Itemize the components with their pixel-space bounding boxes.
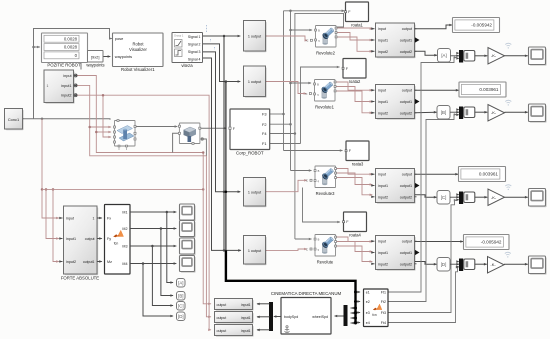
svg-text:-K-: -K- [490, 262, 496, 267]
wire tag to mux row3 [450, 196, 459, 198]
svg-text:1 output: 1 output [248, 35, 261, 39]
scope row4 [530, 257, 547, 275]
goto tag A small [177, 279, 186, 288]
goto tag C small [177, 302, 186, 311]
svg-text:e1: e1 [366, 290, 370, 294]
wire branch to goto C [152, 246, 173, 307]
svg-text:0.0028: 0.0028 [64, 36, 78, 41]
svg-text:input: input [63, 74, 72, 78]
unconnected output1 arrow row4 [415, 250, 420, 255]
svg-text:Signal 4: Signal 4 [188, 58, 201, 62]
svg-text:output2: output2 [400, 262, 412, 266]
wire waypoints to visualizer [103, 55, 111, 58]
svg-text:M4: M4 [122, 262, 127, 266]
svg-text:Ft2: Ft2 [381, 300, 386, 304]
wire Ft1 feedback [388, 56, 457, 292]
svg-text:output: output [217, 329, 227, 333]
svg-text:Ft3: Ft3 [381, 311, 386, 315]
scope M1 [181, 205, 196, 221]
wire Signal2 route [203, 44, 241, 83]
svg-text:input2: input2 [378, 50, 388, 54]
wire M3 to scope [130, 245, 177, 248]
svg-text:wheelSpd: wheelSpd [312, 315, 328, 319]
wire body bottom port route [201, 139, 206, 156]
wire branch to goto A [167, 212, 174, 284]
wire branch to goto D [143, 264, 174, 318]
svg-text:e3: e3 [366, 311, 370, 315]
svg-text:CINEMATICA DIRECTA MECANUM: CINEMATICA DIRECTA MECANUM [271, 291, 342, 296]
gain row3 [488, 189, 505, 206]
svg-text:1 output: 1 output [248, 249, 261, 253]
converter block row1 [464, 51, 475, 62]
svg-text:output1: output1 [400, 184, 412, 188]
svg-text:output: output [217, 303, 227, 307]
svg-text:output: output [402, 240, 412, 244]
mux row3 [460, 192, 463, 204]
wire Revolute2 outputs to subsystem [336, 27, 373, 30]
svg-text:waypoints: waypoints [115, 54, 132, 59]
svg-text:Corp_ROBOT: Corp_ROBOT [236, 151, 264, 156]
joint J1 lower actuation markers [118, 145, 120, 147]
joint body block [179, 123, 200, 144]
svg-text:0.003961: 0.003961 [479, 87, 499, 92]
svg-text:pose: pose [115, 36, 123, 41]
scope M3 [181, 239, 196, 255]
anchor icon [285, 326, 290, 333]
wire output2 to tagA [415, 51, 438, 56]
svg-text:1 output: 1 output [248, 80, 261, 84]
svg-text:input1: input1 [378, 39, 388, 43]
wire gain to scope row4 [504, 263, 528, 266]
wire Ft2 feedback [388, 113, 457, 301]
mux row4 [460, 259, 463, 271]
wire long pink horizontal [42, 188, 203, 190]
svg-text:Robot Visualizer1: Robot Visualizer1 [121, 67, 155, 72]
svg-text:roata3: roata3 [352, 161, 364, 166]
block Corp_ROBOT [230, 109, 270, 150]
block waypoints [88, 51, 104, 63]
wire J1 to body joint [135, 125, 178, 128]
display row1 [453, 18, 500, 33]
wire q actuation row4 [266, 248, 307, 251]
force block roata3 [346, 141, 369, 161]
svg-text:[C]: [C] [178, 303, 184, 308]
matlab function block fcn2 [364, 289, 389, 327]
subsystem 1 output #1 [245, 22, 267, 53]
wire output to display4 [415, 240, 464, 243]
svg-text:output2: output2 [400, 50, 412, 54]
svg-text:-0.005942: -0.005942 [471, 23, 492, 28]
svg-text:input1: input1 [241, 303, 251, 307]
svg-text:B: B [318, 28, 320, 32]
wire tag to mux row2 [450, 111, 459, 113]
svg-text:1: 1 [47, 84, 49, 88]
block viteza signal builder [172, 33, 203, 63]
svg-text:Group 1: Group 1 [174, 34, 184, 38]
svg-text:e4: e4 [366, 321, 370, 325]
svg-text:Visualizer: Visualizer [129, 47, 147, 52]
svg-text:output2: output2 [400, 195, 412, 199]
wire Corp F3 route [270, 113, 284, 115]
wire mux5 to wheelSpd [334, 315, 344, 318]
svg-text:roata1: roata1 [351, 22, 363, 27]
svg-text:input1: input1 [61, 84, 71, 88]
svg-text:0.0028: 0.0028 [64, 45, 78, 50]
gain row4 [488, 257, 505, 274]
goto tag D small [177, 312, 186, 321]
wire Revolute1 outputs to subsystem [335, 82, 373, 92]
scope row3 [530, 190, 547, 208]
wire gain to scope row1 [505, 55, 529, 58]
svg-text:output: output [402, 89, 412, 93]
wire Revolute4 outputs to subsystem [336, 237, 373, 243]
wire TL out2 route [77, 85, 212, 318]
joint Revolute1 [315, 80, 336, 102]
svg-text:0.003961: 0.003961 [479, 172, 499, 177]
svg-text:Revolute3: Revolute3 [316, 191, 336, 196]
unconnected output1 arrow row1 [415, 37, 420, 42]
wire bold distribution line lower [226, 250, 356, 322]
wire M2 to scope [130, 227, 177, 230]
svg-text:Fy: Fy [107, 237, 111, 241]
wire pose feed vertical [34, 29, 113, 119]
wire TL out1 route [77, 76, 212, 306]
svg-text:[B]: [B] [441, 110, 446, 115]
svg-text:input2: input2 [378, 111, 388, 115]
svg-text:[A]: [A] [441, 53, 446, 58]
svg-text:[C]: [C] [441, 195, 447, 200]
svg-text:roata4: roata4 [349, 232, 361, 237]
svg-text:input: input [378, 89, 386, 93]
goto tag A row1 [438, 49, 451, 63]
svg-text:-K-: -K- [491, 53, 497, 58]
svg-text:POZITIE ROBOT: POZITIE ROBOT [47, 63, 81, 68]
subsystem measure row4 [377, 237, 416, 271]
converter block row2 [464, 107, 475, 118]
wire tag to mux row1 [451, 55, 460, 57]
wire to gain row2 [475, 111, 488, 114]
wire output2 to tagD [415, 262, 438, 266]
wire bodySpd to demux [273, 315, 281, 318]
scope row1 [530, 48, 547, 65]
wire Conc1 to joint [23, 119, 111, 120]
svg-text:output: output [85, 237, 95, 241]
wire left feedback vertical B [46, 189, 59, 239]
svg-text:[D]: [D] [441, 262, 447, 267]
svg-text:output: output [402, 27, 412, 31]
wire q actuation row3 [266, 179, 307, 192]
wire Signal1 to 1output [203, 35, 241, 38]
joint Revolute [315, 235, 336, 257]
svg-text:[A]: [A] [178, 280, 183, 285]
subsystem output-input1 #1 [216, 300, 254, 311]
svg-text:Signal 3: Signal 3 [188, 50, 201, 54]
svg-text:-0.005942: -0.005942 [481, 240, 502, 245]
logging badge marks [206, 25, 208, 33]
wifi badge row2 [505, 100, 511, 105]
goto tag C row3 [437, 191, 450, 205]
mux5 wheel speeds [344, 306, 347, 326]
subsystem measure row3 [377, 170, 416, 204]
svg-text:F2: F2 [262, 122, 267, 127]
svg-text:input1: input1 [66, 237, 76, 241]
svg-text:Ft1: Ft1 [381, 290, 386, 294]
wire body loop under [173, 133, 180, 152]
svg-text:input1: input1 [378, 251, 388, 255]
wire Ft4 feedback [388, 266, 459, 323]
svg-text:input1: input1 [378, 100, 388, 104]
wire branch to goto B [161, 229, 174, 297]
wires demux to blocks [257, 303, 270, 305]
wire to Revolute4 B [295, 238, 312, 241]
subsystem 1 output #4 [245, 237, 267, 266]
joint Revolute2 [316, 26, 337, 48]
wire q actuation row2 [266, 82, 307, 95]
svg-text:input2: input2 [61, 94, 71, 98]
svg-text:Signal 2: Signal 2 [188, 43, 201, 47]
svg-text:output1: output1 [400, 100, 412, 104]
wire gain to scope row3 [505, 196, 529, 199]
svg-text:output1: output1 [400, 251, 412, 255]
force block roata4 [344, 212, 367, 232]
wire output to display2 [415, 89, 460, 92]
subsystem FORTE ABSOLUTE [65, 207, 99, 275]
wire center vertical dark [223, 36, 225, 250]
svg-text:-K-: -K- [491, 195, 497, 200]
svg-text:Ft4: Ft4 [381, 321, 386, 325]
svg-text:Fx: Fx [107, 216, 111, 220]
subsystem 1 output #2 [245, 67, 267, 98]
scope row2 [530, 105, 547, 123]
goto tag B small [177, 292, 186, 301]
display row3 [459, 167, 506, 182]
svg-text:output: output [402, 173, 412, 177]
svg-text:input1: input1 [241, 316, 251, 320]
svg-text:roata2: roata2 [349, 79, 361, 84]
svg-text:B: B [317, 82, 319, 86]
wire output to display3 [415, 173, 459, 176]
goto tag D row4 [437, 258, 450, 272]
svg-text:[9x2]: [9x2] [91, 54, 99, 59]
svg-text:output1: output1 [400, 39, 412, 43]
svg-text:input2: input2 [66, 260, 76, 264]
svg-text:Mz: Mz [107, 260, 112, 264]
svg-text:input2: input2 [378, 195, 388, 199]
svg-text:F1: F1 [262, 141, 267, 146]
force block roata1 [346, 2, 369, 22]
wire to roata3 [284, 149, 344, 152]
svg-text:Signal 1: Signal 1 [188, 35, 201, 39]
svg-text:output1: output1 [83, 260, 95, 264]
unconnected output1 arrow row3 [415, 183, 420, 188]
svg-text:[D]: [D] [178, 314, 184, 319]
force block roata2 [343, 59, 366, 79]
subsystem output-input1 #2 [216, 313, 254, 324]
demux bottom [270, 303, 273, 331]
wire Corp F2 route [270, 123, 291, 125]
svg-text:input2: input2 [378, 262, 388, 266]
wire to Revolute3 B [291, 169, 313, 172]
wire tag to mux row4 [450, 263, 459, 265]
wifi badge row3 [505, 185, 511, 190]
wire left feedback vertical C [53, 189, 59, 262]
wire to roata4 [303, 188, 341, 224]
wire left feedback vertical A [42, 119, 59, 220]
scope M2 [181, 222, 196, 238]
svg-text:input: input [378, 240, 386, 244]
wifi badge row1 [505, 43, 511, 48]
svg-text:[B]: [B] [178, 293, 183, 298]
wire to gain row1 [475, 55, 488, 58]
wire to Revolute2 B [291, 29, 313, 32]
subsystem measure row1 [377, 24, 416, 58]
block Robot Visualizer1 [113, 33, 164, 67]
converter block row3 [464, 192, 475, 203]
wire Corp F1 route [270, 143, 301, 145]
svg-text:M3: M3 [122, 244, 127, 248]
svg-text:output: output [217, 316, 227, 320]
wire Revolute3 outputs to subsystem [336, 169, 373, 176]
svg-text:M2: M2 [122, 227, 127, 231]
wire output2 to tagC [415, 195, 438, 199]
svg-text:input: input [66, 216, 74, 220]
wire to gain row3 [475, 196, 488, 199]
wires FORTE to fcn [97, 217, 102, 220]
svg-text:-K-: -K- [491, 110, 497, 115]
goto tag B row2 [437, 106, 450, 120]
svg-text:Revolute2: Revolute2 [316, 51, 336, 56]
svg-text:Revolute1: Revolute1 [315, 105, 335, 110]
svg-text:M1: M1 [122, 210, 127, 214]
wire POZITIE ROBOT input [34, 46, 41, 49]
svg-text:input: input [378, 173, 386, 177]
wire output to display1 [415, 24, 453, 29]
svg-text:F3: F3 [262, 112, 267, 117]
subsystem TL mirrored inputs [45, 71, 74, 104]
wire gain to scope row2 [505, 111, 529, 114]
joint J1 planar [115, 121, 136, 147]
svg-text:output2: output2 [400, 111, 412, 115]
display block POZITIE ROBOT [42, 33, 88, 63]
wire body to Corp F [200, 127, 227, 130]
svg-text:1 output: 1 output [248, 190, 261, 194]
wire Signal4 route [203, 58, 242, 252]
wire to roata1 [291, 10, 345, 13]
block Conc1 [6, 110, 24, 131]
wire bold distribution line upper [225, 82, 227, 251]
wire to gain row4 [475, 263, 487, 266]
matlab function block fcn1 [105, 205, 131, 275]
svg-text:B: B [318, 169, 320, 173]
wire q actuation row1 [266, 36, 308, 42]
subsystem 1 output #3 [245, 179, 267, 208]
svg-text:viteza: viteza [181, 63, 193, 68]
svg-text:waypoints: waypoints [86, 63, 104, 68]
wire waypoints feed [81, 55, 86, 69]
svg-text:Conc1: Conc1 [8, 117, 19, 122]
wire Corp F4 route [270, 133, 295, 135]
gain row1 [488, 48, 505, 65]
svg-text:1: 1 [93, 216, 95, 220]
converter block row4 [464, 259, 475, 270]
mux row2 [460, 107, 463, 119]
wire joint J1 actuation taps [90, 126, 112, 129]
wire output2 to tagB [415, 111, 438, 114]
wifi badge row4 [505, 252, 511, 257]
gain row2 [488, 105, 505, 122]
svg-text:fcn: fcn [372, 313, 376, 317]
svg-text:input1: input1 [378, 184, 388, 188]
wire to Revolute1 B [291, 82, 312, 85]
subsystem output-input1 #3 [216, 326, 254, 337]
wire Signal3 route [203, 52, 241, 193]
svg-text:FORTE ABSOLUTE: FORTE ABSOLUTE [61, 276, 99, 281]
svg-text:Robot: Robot [133, 42, 145, 47]
display row4 [464, 235, 510, 250]
bold line stubs to fcn2 [356, 291, 361, 294]
wire Ft3 feedback [388, 199, 457, 313]
mux row1 [460, 51, 463, 63]
svg-text:input: input [378, 27, 386, 31]
svg-text:e2: e2 [366, 300, 370, 304]
display row2 [459, 82, 506, 97]
svg-text:bodySpd: bodySpd [284, 315, 298, 319]
wire TL out3 route [77, 95, 212, 331]
wire M1 to scope [130, 211, 177, 214]
subsystem measure row2 [377, 86, 416, 120]
joint Revolute3 [315, 166, 336, 188]
svg-text:B: B [318, 237, 320, 241]
svg-text:input1: input1 [241, 329, 251, 333]
svg-text:Revolute: Revolute [317, 260, 334, 265]
unconnected output1 arrow row2 [415, 99, 420, 104]
scope M4 [181, 257, 196, 273]
wire M4 to scope [130, 262, 177, 265]
svg-text:fcn: fcn [114, 242, 119, 246]
